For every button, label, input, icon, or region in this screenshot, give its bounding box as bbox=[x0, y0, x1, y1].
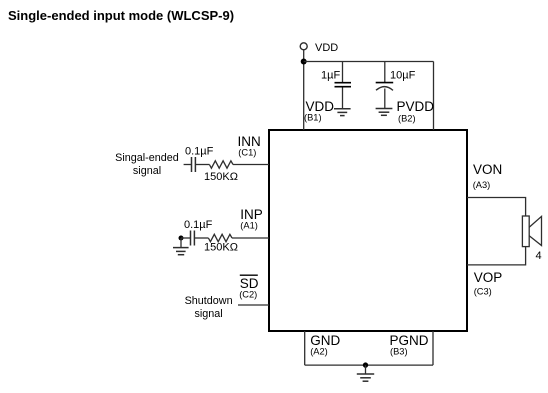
pin SD (C2) with overline bbox=[239, 275, 259, 299]
svg-text:(C3): (C3) bbox=[474, 287, 492, 297]
wire cap to resistor (INP) bbox=[195, 237, 209, 239]
svg-text:(C2): (C2) bbox=[239, 290, 257, 300]
svg-text:Shutdown: Shutdown bbox=[185, 295, 233, 307]
wire to ground stub (INP) bbox=[180, 238, 182, 248]
ground (below C2) bbox=[376, 109, 393, 116]
pin PGND (B3) bbox=[390, 333, 429, 357]
op-amp U1 (amplifier IC body) bbox=[269, 130, 467, 331]
pin VDD (B1) bbox=[304, 99, 334, 123]
svg-text:0.1µF: 0.1µF bbox=[185, 146, 214, 158]
wire cap to resistor (INN) bbox=[196, 164, 210, 166]
svg-text:Singal-ended: Singal-ended bbox=[115, 152, 179, 164]
svg-text:Single-ended input mode (WLCSP: Single-ended input mode (WLCSP-9) bbox=[8, 8, 234, 23]
speaker LS1 bbox=[522, 216, 541, 247]
wire GND vertical bbox=[304, 331, 306, 365]
svg-text:(B2): (B2) bbox=[398, 114, 416, 124]
wire top rail bbox=[304, 61, 434, 63]
node junction top bbox=[301, 59, 307, 65]
svg-text:(A2): (A2) bbox=[310, 347, 328, 357]
annotation Singal-ended signal bbox=[115, 152, 179, 177]
pin INN (C1) bbox=[238, 134, 261, 158]
capacitor C1 1uF bbox=[335, 62, 352, 109]
capacitor C2 10uF (polarized) bbox=[376, 62, 394, 109]
wire VDD vertical bbox=[303, 49, 305, 130]
resistor 150K (INP) bbox=[208, 234, 232, 241]
ground (INP input) bbox=[173, 248, 189, 255]
node junction bottom bbox=[363, 362, 368, 367]
svg-text:4: 4 bbox=[536, 250, 542, 262]
svg-text:(A3): (A3) bbox=[473, 180, 491, 190]
pin PVDD (B2) bbox=[397, 99, 435, 124]
svg-text:0.1µF: 0.1µF bbox=[184, 219, 213, 231]
wire SD bbox=[238, 304, 269, 306]
wire dot to cap (INP) bbox=[181, 237, 190, 239]
svg-text:(C1): (C1) bbox=[238, 148, 256, 158]
wire INN stub bbox=[184, 164, 191, 166]
resistor 150K (INN) bbox=[209, 161, 233, 168]
svg-text:PVDD: PVDD bbox=[397, 99, 435, 114]
capacitor 0.1uF (INN) bbox=[192, 157, 196, 172]
svg-text:signal: signal bbox=[194, 308, 222, 320]
node junction INP input bbox=[179, 236, 184, 241]
wire PGND vertical bbox=[432, 331, 434, 365]
wire resistor to INN pin bbox=[233, 164, 269, 166]
pin INP (A1) bbox=[240, 207, 263, 231]
svg-text:VON: VON bbox=[473, 162, 502, 177]
svg-text:VDD: VDD bbox=[315, 42, 338, 54]
wire bottom rail bbox=[305, 364, 433, 366]
svg-text:(B1): (B1) bbox=[304, 113, 322, 123]
wire PVDD vertical bbox=[433, 62, 435, 131]
wire VON bbox=[467, 198, 526, 217]
wire VOP bbox=[467, 247, 526, 265]
VDD terminal circle bbox=[300, 43, 307, 50]
ground (below C1) bbox=[334, 109, 351, 116]
svg-text:signal: signal bbox=[133, 165, 161, 177]
ground (bottom) bbox=[357, 374, 374, 381]
svg-text:10µF: 10µF bbox=[390, 70, 416, 82]
svg-text:150KΩ: 150KΩ bbox=[204, 242, 238, 254]
svg-text:(B3): (B3) bbox=[390, 347, 408, 357]
svg-text:1µF: 1µF bbox=[321, 70, 340, 82]
wire resistor to INP pin bbox=[232, 237, 269, 239]
capacitor 0.1uF (INP) bbox=[191, 231, 195, 246]
pin GND (A2) bbox=[310, 333, 340, 357]
wire junction to ground bbox=[365, 365, 367, 374]
pin VON (A3) bbox=[473, 162, 503, 190]
svg-text:150KΩ: 150KΩ bbox=[204, 171, 238, 183]
svg-text:VOP: VOP bbox=[474, 270, 503, 285]
pin VOP (C3) bbox=[474, 270, 503, 297]
annotation Shutdown signal bbox=[185, 295, 233, 320]
svg-text:(A1): (A1) bbox=[240, 221, 258, 231]
